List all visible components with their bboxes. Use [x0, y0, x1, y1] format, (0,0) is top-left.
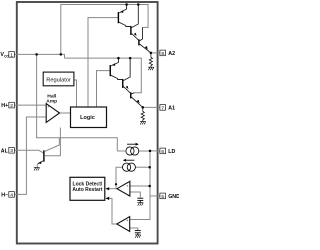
wire comp1 upper input to bus: [130, 185, 150, 187]
wire CS1 to LD node: [139, 150, 150, 152]
svg-text:Regulator: Regulator: [46, 77, 71, 83]
wire A2 output to pin 8: [151, 52, 160, 54]
pin 7 A1: [160, 105, 175, 112]
svg-text:Amp: Amp: [46, 99, 57, 105]
current source I1 (charge): [126, 144, 139, 155]
wire AL input: [14, 150, 44, 153]
svg-text:2: 2: [10, 103, 13, 109]
wire VCC drop to power line: [37, 54, 118, 151]
arrow into lock box from comp2: [106, 197, 110, 200]
ground (C1): [138, 203, 144, 206]
wire regulator output to logic: [74, 80, 77, 107]
svg-text:7: 7: [161, 105, 164, 111]
pin 5 GND: [160, 193, 180, 200]
wire A1 top rail: [65, 58, 142, 93]
comparator U2 (lock detect upper): [117, 181, 130, 196]
pin 8 A2: [160, 50, 175, 57]
node rail dots A1: [117, 57, 120, 60]
wire comp1 output to lock detect box: [106, 188, 117, 190]
wire logic to AL transistor base: [45, 128, 61, 156]
pin 6 LD: [160, 148, 176, 155]
transistor Q1 (A2 high-side PNP): [118, 5, 130, 27]
chip outline: [17, 2, 158, 244]
transistor Q3 (A2 output NPN): [139, 27, 151, 53]
pin 3 AL: [1, 148, 15, 155]
node CS2 bus junction: [148, 166, 151, 169]
wire comp2 output to lock detect box: [106, 198, 117, 224]
node rail dots A2: [125, 3, 128, 6]
transistor Q2 (A2 driver NPN): [131, 5, 139, 41]
svg-text:LD: LD: [168, 149, 175, 155]
transistor Q4 (A1 high-side PNP): [110, 58, 122, 79]
capacitor C2: [135, 231, 141, 235]
svg-text:CC: CC: [4, 55, 9, 59]
resistor R1 (A2 sense): [149, 53, 152, 67]
ground (AL transistor emitter): [34, 168, 40, 171]
svg-text:Auto Restart: Auto Restart: [72, 187, 102, 193]
wire LD bus down to comp2 input: [130, 151, 150, 220]
wire LD pin: [150, 150, 160, 152]
transistor Q6 (A1 output NPN): [131, 92, 143, 107]
node LD junction: [149, 150, 152, 153]
capacitor C1: [137, 198, 143, 202]
node VCC junction dots: [35, 53, 38, 56]
svg-text:5: 5: [161, 194, 164, 200]
pin 2 H+: [1, 102, 14, 109]
wire logic to A2 base: [88, 18, 118, 107]
svg-text:6: 6: [161, 149, 164, 155]
wire A1 output to pin 7: [143, 106, 160, 108]
node A1 output junction: [142, 106, 145, 109]
svg-text:8: 8: [161, 51, 164, 57]
arrow into lock box from comp1: [106, 187, 110, 190]
ground (A2 sense): [148, 67, 154, 70]
svg-text:H+: H+: [1, 103, 8, 109]
wire comp1 lower input to capacitor: [130, 192, 140, 198]
svg-text:GND: GND: [168, 194, 179, 200]
current source I2 (discharge): [123, 160, 136, 171]
svg-text:AL: AL: [1, 148, 9, 154]
wire H+ input: [14, 104, 46, 106]
wire CS2 feed from comp1 output node: [116, 167, 122, 188]
svg-text:Logic: Logic: [80, 115, 95, 121]
node comp1 input bus junction: [148, 185, 151, 188]
wire GND pin: [150, 195, 160, 197]
pin 4 H-: [1, 192, 14, 199]
node comp1 output junction: [115, 183, 117, 185]
wire CS1 left feed: [117, 150, 126, 152]
hall amp label: [46, 94, 57, 105]
wire H- input riser: [14, 117, 46, 194]
transistor Q5 (A1 driver NPN): [123, 58, 131, 93]
resistor R2 (A1 sense): [141, 107, 144, 121]
wire riser to A2 top rail: [61, 5, 148, 55]
wire CS2 right to bus: [135, 166, 149, 168]
ground (A1 sense): [140, 122, 146, 125]
svg-text:A2: A2: [168, 51, 175, 57]
regulator block: [43, 72, 74, 86]
svg-text:A1: A1: [168, 105, 175, 111]
transistor Q7 (AL clamp): [37, 150, 44, 167]
svg-text:4: 4: [10, 192, 13, 198]
lock detect / auto restart block: [70, 177, 105, 200]
wire AL transistor collector riser: [45, 138, 59, 152]
pin 1 VCC: [0, 52, 14, 59]
hall amp U1 triangle: [46, 104, 59, 123]
svg-text:H–: H–: [1, 192, 8, 198]
wire hall amp output: [60, 112, 71, 114]
svg-text:1: 1: [10, 52, 13, 58]
wire VCC pin1 horizontal: [14, 54, 64, 58]
ground (C2): [135, 235, 141, 238]
svg-text:3: 3: [10, 148, 13, 154]
wire logic to A1 base: [97, 71, 110, 107]
comparator U3 (lock detect lower): [117, 217, 130, 232]
wire comp2 lower input to capacitor: [130, 228, 138, 230]
node A2 output junction: [150, 52, 153, 55]
logic block: [71, 107, 107, 128]
